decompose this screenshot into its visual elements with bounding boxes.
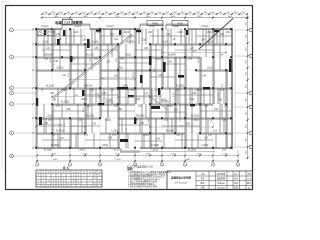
svg-text:8: 8 — [84, 186, 85, 188]
svg-text:KL3(2): KL3(2) — [107, 26, 114, 28]
svg-text:L5(1): L5(1) — [42, 42, 48, 44]
svg-text:8: 8 — [78, 183, 79, 185]
svg-text:2023.06: 2023.06 — [217, 188, 225, 190]
svg-text:KL24: KL24 — [198, 57, 200, 63]
border frame — [6, 6, 253, 190]
plan grid axes — [36, 24, 233, 150]
svg-text:KL5(6): KL5(6) — [92, 42, 99, 44]
svg-text:KL4(3): KL4(3) — [202, 26, 209, 28]
svg-text:L10(2): L10(2) — [122, 86, 129, 88]
drawing title label — [54, 19, 83, 25]
svg-text:梁 表: 梁 表 — [63, 165, 70, 170]
svg-text:KL26(2): KL26(2) — [44, 149, 52, 151]
svg-text:c8@1: c8@1 — [167, 106, 174, 108]
svg-text:L3(2): L3(2) — [207, 42, 213, 44]
left axis bubbles — [10, 28, 36, 158]
svg-text:8: 8 — [43, 186, 44, 188]
svg-text:c8@1: c8@1 — [207, 32, 214, 34]
svg-text:8: 8 — [90, 175, 91, 177]
top dimension chain — [41, 12, 248, 19]
plan beams horizontal — [36, 24, 233, 152]
svg-text:KL27(4): KL27(4) — [114, 149, 122, 151]
svg-text:KL11(6): KL11(6) — [46, 86, 54, 88]
svg-text:8: 8 — [53, 186, 54, 188]
svg-text:8: 8 — [95, 183, 96, 185]
columns — [35, 28, 232, 149]
svg-text:c8@1: c8@1 — [143, 135, 150, 137]
svg-text:c8@2: c8@2 — [85, 106, 92, 108]
svg-text:KL16(2): KL16(2) — [191, 116, 199, 118]
svg-text:L8(1): L8(1) — [125, 55, 131, 57]
svg-text:8: 8 — [95, 186, 96, 188]
right dimension chain — [234, 14, 252, 159]
svg-text:8: 8 — [73, 183, 74, 185]
svg-text:KL15(2): KL15(2) — [86, 116, 94, 118]
svg-text:c8@2: c8@2 — [69, 59, 76, 61]
svg-text:8: 8 — [63, 178, 64, 180]
svg-text:KL1(2): KL1(2) — [42, 26, 49, 28]
svg-text:250x500: 250x500 — [136, 116, 146, 118]
svg-text:8: 8 — [78, 175, 79, 177]
svg-text:L2(2): L2(2) — [173, 26, 179, 28]
svg-text:KL8(4): KL8(4) — [169, 55, 176, 57]
beam schedule table — [36, 165, 102, 187]
svg-text:KL7(2): KL7(2) — [87, 55, 94, 57]
svg-text:标高: 标高 — [54, 20, 62, 25]
svg-text:8: 8 — [48, 186, 49, 188]
svg-text:G: G — [11, 30, 13, 32]
svg-text:KL9(2): KL9(2) — [57, 68, 64, 70]
svg-text:KL13(2): KL13(2) — [61, 102, 69, 104]
svg-text:8: 8 — [43, 178, 44, 180]
svg-text:2x16: 2x16 — [74, 32, 80, 34]
svg-text:8: 8 — [90, 186, 91, 188]
svg-text:8: 8 — [38, 175, 39, 177]
bottom axis bubbles — [35, 162, 239, 167]
svg-text:8: 8 — [43, 175, 44, 177]
svg-text:L12(2): L12(2) — [47, 116, 54, 118]
svg-text:c8@1: c8@1 — [155, 59, 162, 61]
svg-text:8: 8 — [90, 181, 91, 183]
svg-text:c10@1: c10@1 — [128, 90, 136, 92]
svg-text:L61(1): L61(1) — [79, 149, 86, 151]
svg-text:8: 8 — [58, 183, 59, 185]
svg-text:8: 8 — [99, 181, 100, 183]
svg-text:KL19(2): KL19(2) — [51, 145, 59, 147]
svg-text:KL12(2): KL12(2) — [176, 86, 184, 88]
svg-text:某建筑设计研究院: 某建筑设计研究院 — [170, 176, 192, 180]
svg-text:8: 8 — [53, 183, 54, 185]
plan beams vertical — [36, 24, 233, 149]
svg-text:c8@2: c8@2 — [81, 99, 88, 101]
svg-text:KL10: KL10 — [207, 68, 213, 70]
svg-text:8: 8 — [84, 178, 85, 180]
svg-text:300x700: 300x700 — [84, 86, 94, 88]
svg-text:1:100: 1:100 — [246, 178, 252, 180]
svg-text:KL25: KL25 — [133, 72, 135, 78]
svg-text:8: 8 — [58, 178, 59, 180]
svg-text:8: 8 — [68, 186, 69, 188]
left wall dark segment — [36, 98, 38, 106]
svg-text:8: 8 — [99, 183, 100, 185]
svg-text:8: 8 — [58, 186, 59, 188]
svg-text:L13(1): L13(1) — [112, 131, 119, 133]
svg-text:L1(2): L1(2) — [149, 26, 155, 28]
svg-text:8: 8 — [53, 178, 54, 180]
table text — [38, 170, 101, 187]
shear walls — [39, 30, 232, 143]
svg-text:KL17(2): KL17(2) — [56, 131, 64, 133]
svg-text:KL18(3): KL18(3) — [166, 131, 174, 133]
bottom auxiliary line right — [140, 151, 215, 153]
top-left balcony box — [38, 30, 54, 36]
svg-text:KL20(6): KL20(6) — [151, 145, 159, 147]
svg-text:8: 8 — [73, 175, 74, 177]
right edge auxiliary line — [234, 29, 236, 148]
svg-text:KL21: KL21 — [50, 57, 52, 63]
svg-text:8: 8 — [95, 178, 96, 180]
svg-text:YKB1: YKB1 — [177, 22, 184, 26]
interior dimension marks — [35, 51, 227, 128]
svg-text:c8@2: c8@2 — [105, 120, 112, 122]
stair diagonal long — [52, 34, 133, 99]
svg-text:8: 8 — [58, 181, 59, 183]
svg-text:2x18: 2x18 — [178, 32, 184, 34]
svg-text:L62(2): L62(2) — [152, 149, 159, 151]
svg-text:8: 8 — [95, 175, 96, 177]
left inner dim ticks — [32, 28, 34, 149]
svg-text:KL6(2): KL6(2) — [162, 42, 169, 44]
top tag boxes — [147, 21, 188, 26]
svg-text:c8@2: c8@2 — [195, 90, 202, 92]
svg-text:8: 8 — [84, 175, 85, 177]
title block frame — [167, 171, 253, 189]
svg-text:8: 8 — [38, 183, 39, 185]
svg-text:c8@2: c8@2 — [193, 120, 200, 122]
svg-text:KL28(2): KL28(2) — [188, 149, 196, 151]
svg-text:c8@1: c8@1 — [161, 100, 168, 102]
title block text — [170, 172, 252, 190]
bottom dimension chain — [36, 150, 239, 162]
svg-text:c8@2: c8@2 — [61, 90, 68, 92]
svg-text:8: 8 — [99, 175, 100, 177]
svg-text:L15(2): L15(2) — [102, 145, 109, 147]
ramp diagonal top right — [199, 19, 233, 50]
svg-text:KL2(4): KL2(4) — [75, 26, 82, 28]
svg-text:YKB1: YKB1 — [152, 22, 159, 26]
svg-text:12000: 12000 — [115, 159, 121, 161]
svg-text:L9(2): L9(2) — [117, 68, 123, 70]
svg-text:8: 8 — [68, 183, 69, 185]
svg-text:250x600: 250x600 — [126, 42, 136, 44]
svg-text:8: 8 — [73, 178, 74, 180]
sheet edge line — [2, 2, 10, 170]
svg-text:KL14(4): KL14(4) — [161, 102, 169, 104]
svg-text:250x500: 250x500 — [44, 55, 54, 57]
beam labels — [42, 26, 231, 151]
svg-text:8: 8 — [48, 181, 49, 183]
svg-text:8: 8 — [78, 178, 79, 180]
svg-text:8: 8 — [63, 186, 64, 188]
notes text block — [127, 165, 173, 189]
stair diagonal center — [148, 95, 168, 110]
svg-text:KL23: KL23 — [148, 117, 150, 123]
svg-text:L16(2): L16(2) — [202, 145, 209, 147]
svg-text:c8@2: c8@2 — [123, 32, 130, 34]
